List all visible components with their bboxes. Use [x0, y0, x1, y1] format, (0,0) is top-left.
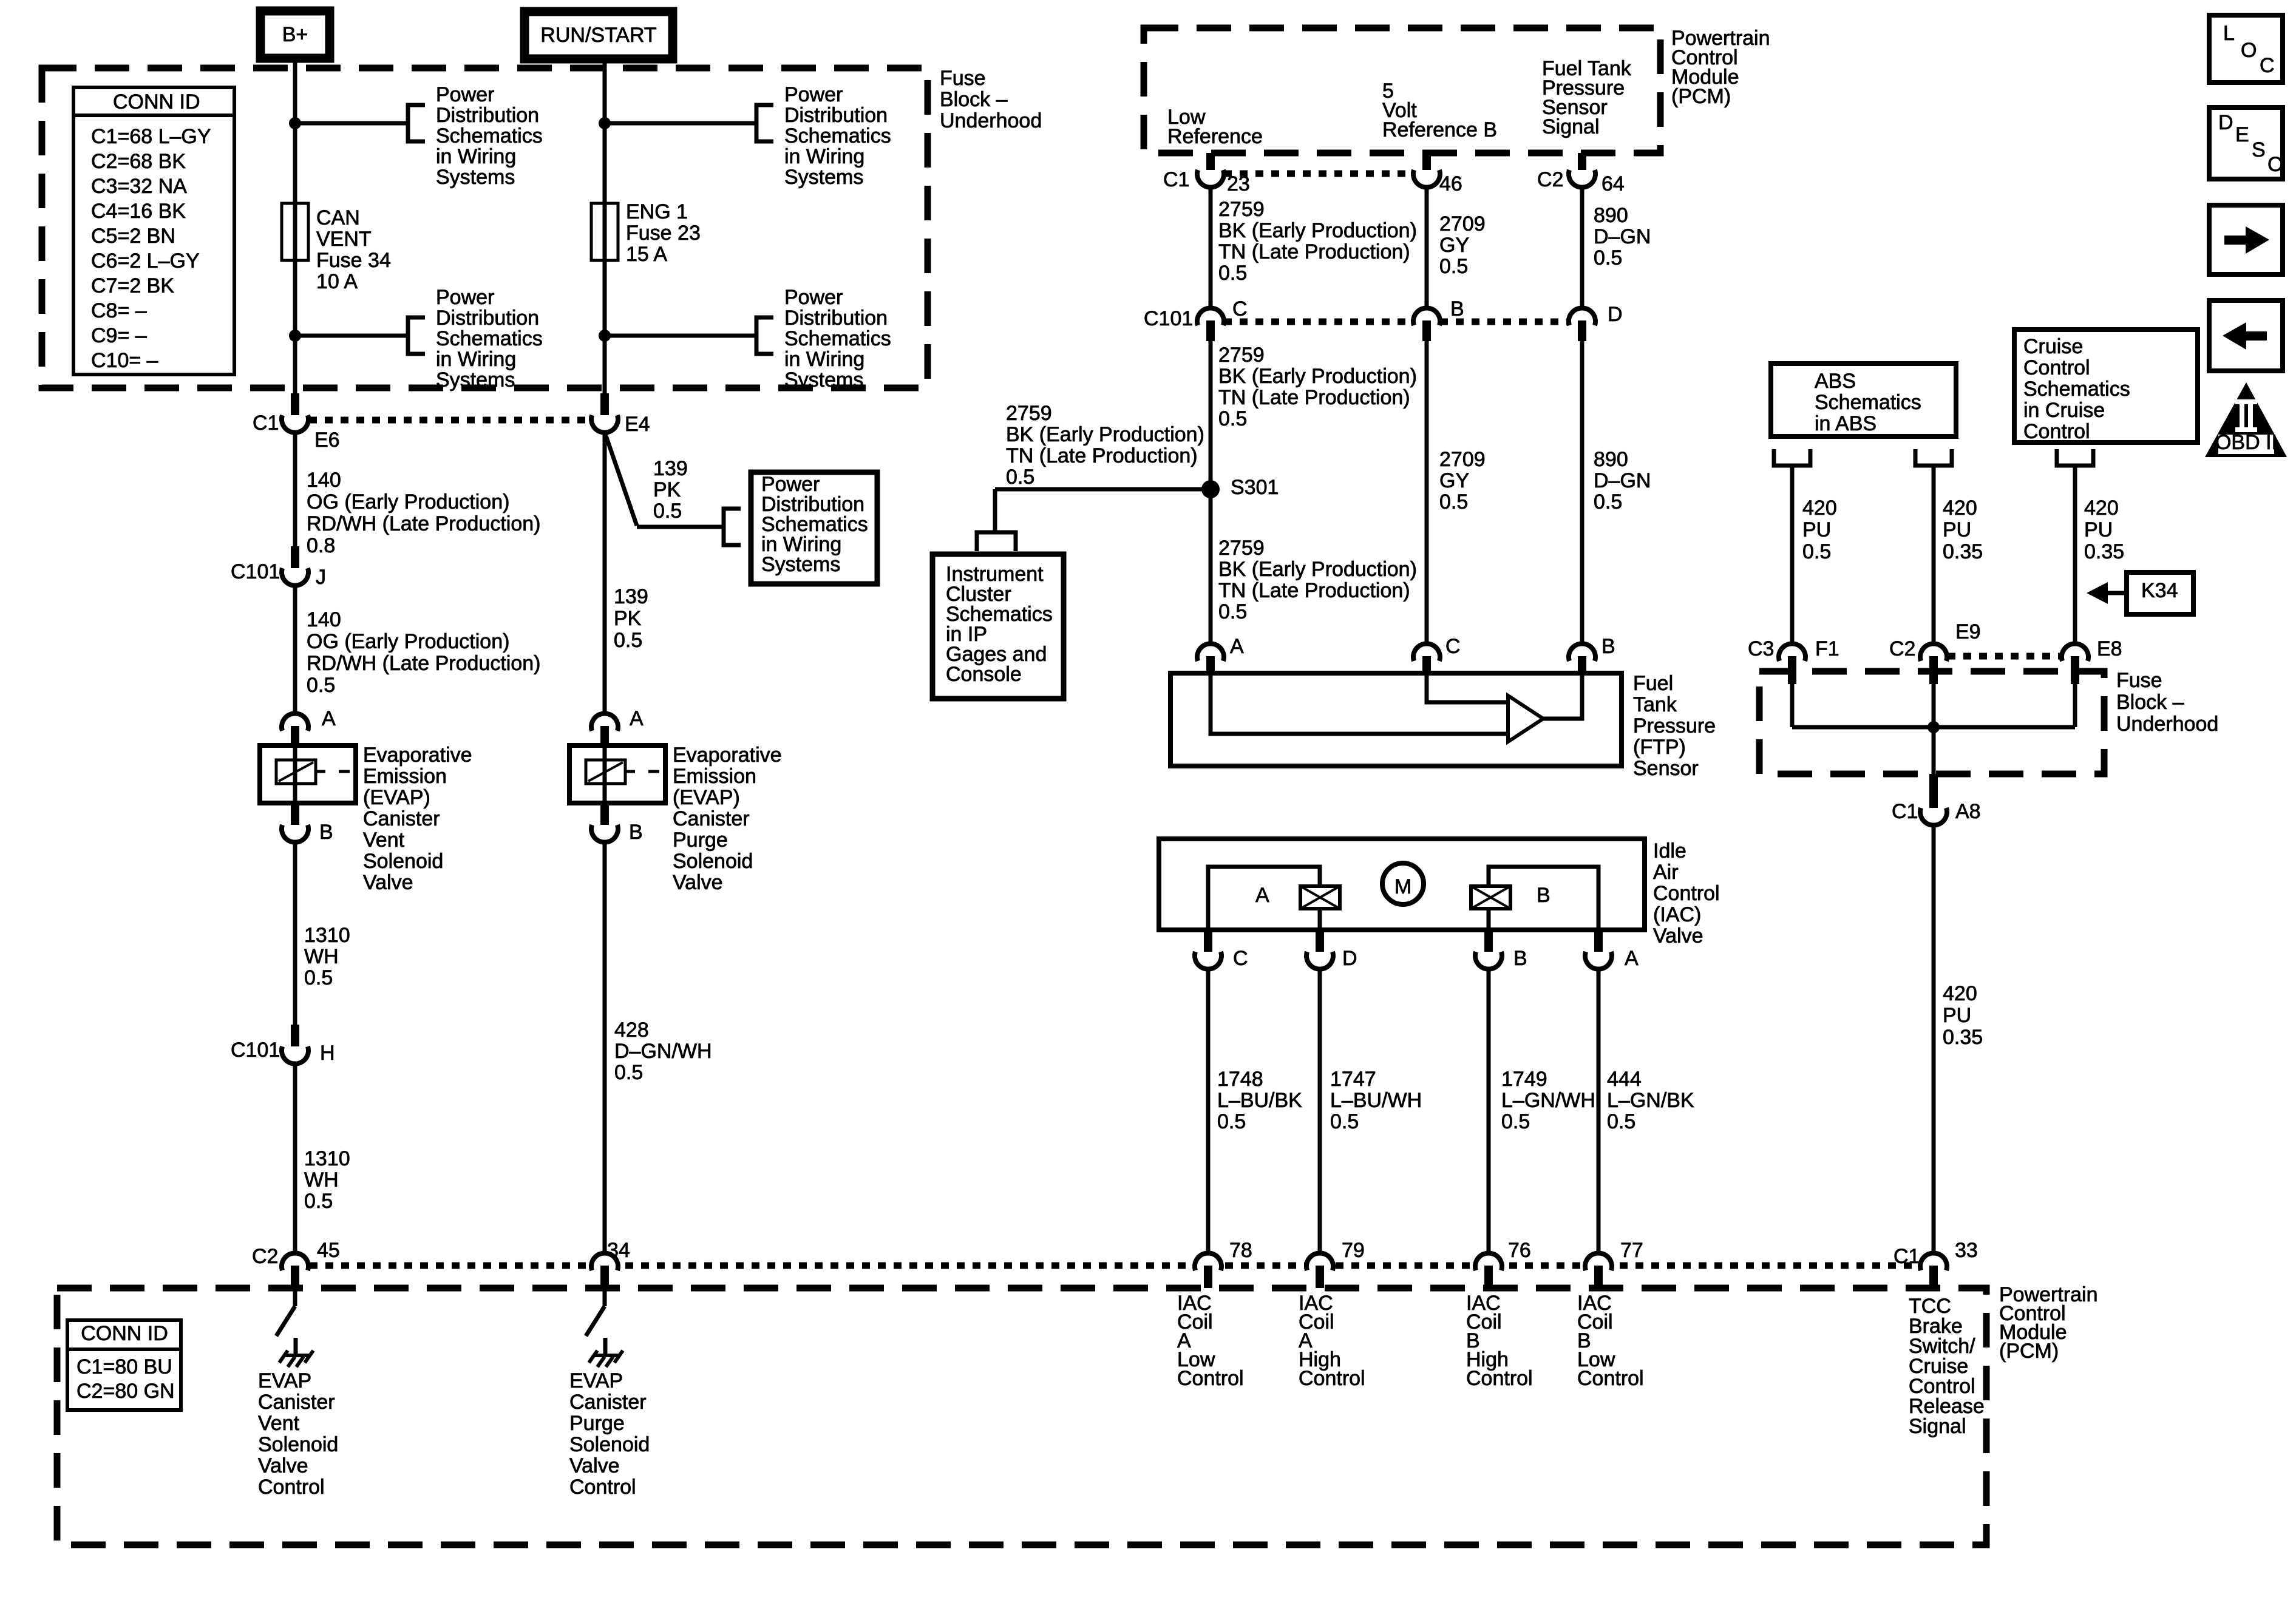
driver switch at 996 — [603, 1288, 607, 1306]
pin E4 stub — [600, 393, 609, 415]
pin 45 stub — [291, 1266, 299, 1288]
svg-text:Evaporative: Evaporative — [363, 744, 472, 767]
connector iac pin D — [1306, 952, 1333, 969]
wire iac B down — [1487, 970, 1491, 1252]
pin E8 stub — [2071, 656, 2079, 684]
connector cap E8 — [2062, 643, 2088, 661]
fuse ENG 1 Fuse 23 — [591, 203, 618, 260]
svg-text:Distribution: Distribution — [436, 307, 539, 330]
svg-text:Power: Power — [784, 286, 843, 309]
svg-text:(PCM): (PCM) — [1671, 85, 1731, 108]
svg-text:BK (Early Production): BK (Early Production) — [1218, 219, 1417, 242]
svg-text:BK (Early Production): BK (Early Production) — [1218, 558, 1417, 581]
svg-text:Valve: Valve — [258, 1454, 308, 1477]
svg-text:2759: 2759 — [1218, 537, 1265, 560]
motor M circle — [1382, 863, 1424, 904]
svg-text:S301: S301 — [1231, 476, 1279, 499]
svg-text:2759: 2759 — [1006, 402, 1052, 425]
svg-text:1748: 1748 — [1217, 1068, 1263, 1091]
wire RUN/START feed — [603, 58, 607, 416]
splice S301 — [1201, 480, 1220, 498]
svg-text:Sensor: Sensor — [1633, 757, 1699, 780]
svg-text:C1: C1 — [253, 412, 279, 435]
svg-text:in Cruise: in Cruise — [2023, 399, 2105, 422]
EVAP vent solenoid valve box — [260, 745, 356, 803]
svg-text:0.5: 0.5 — [1607, 1110, 1635, 1133]
svg-text:(EVAP): (EVAP) — [673, 786, 740, 809]
svg-text:Signal: Signal — [1542, 115, 1600, 138]
connector bottom cap pin 77 — [1585, 1253, 1612, 1270]
terminal B+ — [260, 11, 330, 58]
svg-text:E9: E9 — [1955, 620, 1981, 643]
wire 140 OG segment 1 — [293, 433, 297, 547]
svg-text:C: C — [2267, 153, 2283, 176]
svg-text:C4=16 BK: C4=16 BK — [91, 200, 186, 223]
terminal RUN/START — [525, 12, 673, 59]
wire 139 PK main — [603, 433, 607, 713]
svg-text:Block –: Block – — [940, 88, 1008, 111]
svg-text:139: 139 — [653, 457, 688, 480]
svg-text:RUN/START: RUN/START — [540, 24, 656, 47]
wire 420 to tcc — [1932, 826, 1936, 1252]
svg-text:C2=68 BK: C2=68 BK — [91, 150, 186, 173]
svg-text:140: 140 — [307, 469, 341, 492]
svg-text:A: A — [1230, 635, 1244, 658]
svg-text:C: C — [2260, 54, 2275, 77]
svg-text:Signal: Signal — [1909, 1415, 1966, 1438]
svg-text:0.5: 0.5 — [1218, 262, 1247, 285]
svg-text:0.5: 0.5 — [304, 966, 333, 989]
svg-text:23: 23 — [1227, 172, 1250, 195]
svg-text:O: O — [2241, 39, 2257, 62]
svg-text:RD/WH (Late Production): RD/WH (Late Production) — [307, 652, 540, 675]
svg-text:0.5: 0.5 — [1218, 600, 1247, 623]
wire 2709 c101 to ftp — [1425, 340, 1429, 643]
svg-text:Solenoid: Solenoid — [258, 1433, 338, 1456]
page link bracket 3 — [756, 105, 773, 141]
connector dotted line E9-E8 — [1948, 653, 2062, 660]
wire 1310 WH segment 2 — [293, 1065, 297, 1252]
svg-text:E6: E6 — [314, 429, 340, 452]
svg-text:C2: C2 — [1889, 637, 1915, 660]
svg-text:0.5: 0.5 — [1218, 407, 1247, 430]
svg-text:A: A — [322, 707, 336, 730]
svg-text:(IAC): (IAC) — [1653, 903, 1701, 926]
connector bottom cap pin 76 — [1475, 1253, 1502, 1270]
svg-text:Distribution: Distribution — [436, 104, 539, 127]
svg-text:Systems: Systems — [784, 166, 863, 189]
svg-text:D–GN: D–GN — [1594, 469, 1651, 492]
bus bar fuse block — [1792, 725, 2075, 730]
connector C2 pin 64 — [1569, 170, 1595, 188]
icon DESC box — [2209, 107, 2283, 179]
svg-text:TN (Late Production): TN (Late Production) — [1218, 240, 1410, 263]
K34 arrow — [2107, 591, 2127, 595]
page link bracket instrument cluster — [977, 532, 1016, 551]
wire ftp A internal — [1211, 676, 1508, 734]
svg-text:890: 890 — [1594, 448, 1628, 471]
svg-text:BK (Early Production): BK (Early Production) — [1218, 365, 1417, 388]
pin B stub c101 — [1422, 320, 1431, 341]
svg-text:Reference: Reference — [1167, 125, 1263, 148]
connector bottom cap pin 45 — [282, 1253, 308, 1270]
svg-text:M: M — [1394, 875, 1411, 898]
connector C1 pin E6 — [282, 415, 308, 433]
pin 78 stub — [1204, 1266, 1212, 1288]
svg-text:C: C — [1445, 635, 1461, 658]
svg-text:A: A — [630, 707, 644, 730]
page link bracket 5 — [724, 509, 741, 545]
junction node RUN branch 2 — [599, 330, 611, 342]
connector dotted line C1 top — [1224, 171, 1413, 177]
svg-text:PU: PU — [1943, 1004, 1971, 1027]
connector bottom cap pin 34 — [591, 1253, 618, 1270]
connector C101 dotted line a — [1224, 319, 1413, 325]
pin E6 stub — [291, 393, 299, 415]
svg-text:Schematics: Schematics — [436, 327, 543, 350]
svg-text:C: C — [1232, 297, 1248, 320]
connector C101 J — [282, 568, 308, 586]
fuse block underhood right dashed box — [1759, 671, 2104, 774]
connector C101 cap D — [1569, 308, 1595, 325]
svg-text:in Wiring: in Wiring — [436, 348, 516, 371]
svg-text:2759: 2759 — [1218, 344, 1265, 367]
svg-text:64: 64 — [1601, 172, 1625, 195]
pin F1 stub — [1788, 656, 1796, 684]
pin iac D stub — [1316, 930, 1324, 952]
pin 34 stub — [600, 1266, 609, 1288]
svg-text:34: 34 — [607, 1239, 630, 1262]
wire 890 pcm to c101 — [1580, 187, 1584, 308]
wire 2759 c101 to s301 — [1209, 340, 1213, 643]
svg-text:76: 76 — [1508, 1239, 1531, 1262]
svg-text:C101: C101 — [1144, 307, 1193, 330]
svg-text:in Wiring: in Wiring — [784, 145, 864, 168]
svg-text:TN (Late Production): TN (Late Production) — [1218, 579, 1410, 602]
connector C101 H — [282, 1046, 308, 1064]
svg-text:ABS: ABS — [1815, 370, 1856, 393]
fuse CAN VENT Fuse 34 — [282, 203, 308, 260]
svg-text:Control: Control — [569, 1476, 636, 1499]
svg-text:EVAP: EVAP — [258, 1369, 311, 1392]
connector C1 dotted line — [309, 417, 591, 424]
wire 420 abs right — [1932, 466, 1936, 643]
svg-text:B: B — [1450, 297, 1464, 320]
coil A element — [1300, 886, 1340, 909]
svg-text:L–GN/WH: L–GN/WH — [1501, 1089, 1595, 1112]
page link bracket 4 — [756, 317, 773, 354]
svg-text:C2: C2 — [1537, 168, 1563, 191]
svg-text:2759: 2759 — [1218, 198, 1265, 221]
connector iac pin B — [1475, 952, 1502, 969]
svg-text:1747: 1747 — [1330, 1068, 1376, 1091]
connector C1 A8 — [1920, 808, 1947, 825]
svg-text:C1=68 L–GY: C1=68 L–GY — [91, 125, 211, 148]
PCM bottom dashed box — [57, 1288, 1986, 1545]
svg-text:L–BU/BK: L–BU/BK — [1217, 1089, 1302, 1112]
svg-text:15 A: 15 A — [626, 243, 667, 266]
svg-text:Power: Power — [784, 83, 843, 106]
svg-text:Emission: Emission — [363, 765, 447, 788]
icon LOC box — [2209, 15, 2283, 83]
driver switch at 486 — [293, 1288, 297, 1306]
svg-text:GY: GY — [1439, 234, 1469, 257]
svg-text:CONN ID: CONN ID — [113, 90, 200, 114]
svg-text:Control: Control — [2023, 356, 2090, 379]
connector pin A vent cap — [282, 713, 308, 731]
svg-text:Schematics: Schematics — [2023, 378, 2130, 401]
svg-text:A: A — [1625, 947, 1639, 970]
svg-text:420: 420 — [2084, 497, 2119, 520]
pin B purge stub — [600, 803, 609, 825]
connector pin B vent — [282, 825, 308, 842]
svg-text:GY: GY — [1439, 469, 1469, 492]
svg-text:Systems: Systems — [436, 368, 515, 392]
svg-text:0.5: 0.5 — [1439, 255, 1468, 278]
FTP sensor box — [1170, 673, 1622, 766]
connector pin A purge cap — [591, 713, 618, 731]
pin A8 stub — [1929, 774, 1938, 808]
svg-text:B: B — [1513, 947, 1527, 970]
svg-text:0.5: 0.5 — [1006, 466, 1034, 489]
svg-text:Evaporative: Evaporative — [673, 744, 782, 767]
svg-text:PU: PU — [1802, 518, 1831, 541]
svg-text:B: B — [1537, 884, 1550, 907]
svg-text:890: 890 — [1594, 204, 1628, 227]
svg-text:E8: E8 — [2097, 637, 2122, 660]
pin ftp C stub — [1422, 656, 1431, 676]
connector C1 pin E4 — [591, 415, 618, 433]
CONN ID table — [73, 87, 234, 375]
wire 890 c101 to ftp — [1580, 340, 1584, 643]
svg-text:Control: Control — [1299, 1367, 1365, 1390]
svg-text:Control: Control — [1653, 882, 1720, 905]
svg-text:Pressure: Pressure — [1633, 714, 1716, 737]
connector cap F1 — [1779, 643, 1805, 661]
wire e8 inside — [2073, 684, 2077, 727]
svg-text:ENG 1: ENG 1 — [626, 200, 688, 223]
svg-text:0.5: 0.5 — [614, 629, 642, 652]
svg-text:Schematics: Schematics — [784, 124, 891, 147]
pin C101-H stub — [291, 1025, 299, 1046]
svg-text:OG (Early Production): OG (Early Production) — [307, 630, 509, 653]
svg-text:in ABS: in ABS — [1815, 412, 1877, 435]
svg-text:0.35: 0.35 — [1943, 540, 1983, 563]
svg-text:Systems: Systems — [436, 166, 515, 189]
wire iac coil B up — [1487, 909, 1491, 930]
pin C stub c101 — [1206, 320, 1215, 341]
svg-text:0.5: 0.5 — [1501, 1110, 1530, 1133]
svg-text:RD/WH (Late Production): RD/WH (Late Production) — [307, 512, 540, 535]
wire E4 branch horizontal — [637, 525, 724, 529]
svg-text:428: 428 — [614, 1019, 649, 1042]
connector C1 pin 23 — [1197, 170, 1224, 188]
svg-text:Solenoid: Solenoid — [363, 850, 443, 873]
connector C101 cap B — [1413, 308, 1440, 325]
svg-text:0.5: 0.5 — [614, 1061, 643, 1084]
svg-text:Systems: Systems — [761, 553, 840, 576]
svg-text:Power: Power — [436, 83, 494, 106]
wire iac coil A down — [1318, 909, 1322, 930]
pin 64 stub — [1578, 153, 1586, 172]
svg-text:Control: Control — [1577, 1367, 1644, 1390]
wire E4 branch diagonal — [605, 432, 637, 526]
svg-text:OBD II: OBD II — [2215, 431, 2277, 454]
connector bottom cap pin 33 — [1920, 1253, 1947, 1270]
svg-text:140: 140 — [307, 608, 341, 631]
wire 420 cruise — [2073, 466, 2077, 643]
svg-text:C101: C101 — [231, 560, 280, 583]
pin E9 stub — [1929, 656, 1938, 684]
wire branch to power distribution 2 — [295, 334, 408, 338]
svg-text:Distribution: Distribution — [784, 104, 888, 127]
svg-text:D: D — [1608, 303, 1623, 326]
svg-text:Underhood: Underhood — [940, 109, 1042, 132]
svg-text:Purge: Purge — [569, 1412, 625, 1435]
wire 420 abs left — [1790, 466, 1795, 643]
svg-text:0.5: 0.5 — [1330, 1110, 1359, 1133]
solenoid element vent — [276, 760, 316, 784]
pin 33 stub — [1929, 1266, 1938, 1288]
pin 76 stub — [1484, 1266, 1493, 1288]
connector cap E9 — [1920, 643, 1947, 661]
svg-text:K34: K34 — [2141, 579, 2178, 602]
wire branch to power distribution 1 — [295, 121, 408, 126]
svg-text:Solenoid: Solenoid — [673, 850, 753, 873]
svg-text:Purge: Purge — [673, 829, 728, 852]
junction node RUN branch 1 — [599, 117, 611, 129]
svg-text:C1=80 BU: C1=80 BU — [76, 1355, 172, 1378]
svg-text:Control: Control — [1177, 1367, 1244, 1390]
svg-text:A: A — [1255, 884, 1269, 907]
connector cap ftp B — [1569, 643, 1595, 661]
svg-text:C8= –: C8= – — [91, 299, 147, 322]
svg-text:C6=2 L–GY: C6=2 L–GY — [91, 249, 200, 273]
wire s301 branch vertical — [993, 489, 997, 532]
svg-text:EVAP: EVAP — [569, 1369, 623, 1392]
wire 140 OG segment 2 — [293, 586, 297, 713]
svg-text:Power: Power — [436, 286, 494, 309]
page link bracket 2 — [408, 317, 425, 354]
svg-text:Console: Console — [946, 663, 1022, 686]
svg-text:Canister: Canister — [569, 1391, 647, 1414]
svg-text:VENT: VENT — [316, 228, 372, 251]
svg-text:CAN: CAN — [316, 206, 360, 229]
connector cap ftp C — [1413, 643, 1440, 661]
box instrument cluster schematics — [932, 554, 1064, 699]
pin D stub c101 — [1578, 320, 1586, 341]
svg-text:Schematics: Schematics — [784, 327, 891, 350]
svg-text:WH: WH — [304, 1168, 339, 1192]
svg-text:Fuse 23: Fuse 23 — [626, 222, 701, 245]
pin 77 stub — [1594, 1266, 1603, 1288]
svg-text:33: 33 — [1955, 1239, 1978, 1262]
svg-text:Block –: Block – — [2116, 691, 2184, 714]
svg-text:C5=2 BN: C5=2 BN — [91, 225, 175, 248]
icon OBD II triangle — [2205, 382, 2287, 457]
svg-text:Fuse 34: Fuse 34 — [316, 249, 391, 272]
svg-text:in Wiring: in Wiring — [436, 145, 516, 168]
svg-text:C7=2 BK: C7=2 BK — [91, 274, 174, 297]
svg-text:C9= –: C9= – — [91, 324, 147, 347]
junction node bus — [1927, 721, 1940, 733]
svg-text:Systems: Systems — [784, 368, 863, 392]
svg-text:Fuse: Fuse — [2116, 669, 2162, 692]
svg-text:H: H — [320, 1042, 335, 1065]
svg-text:(FTP): (FTP) — [1633, 736, 1686, 759]
connector iac pin C — [1195, 952, 1221, 969]
wire 2709 pcm to c101 — [1425, 187, 1429, 308]
svg-text:C2: C2 — [252, 1245, 278, 1268]
svg-text:Cruise: Cruise — [2023, 335, 2083, 358]
fuse block underhood dashed box — [42, 68, 928, 388]
svg-text:PK: PK — [614, 607, 642, 630]
svg-text:79: 79 — [1342, 1239, 1365, 1262]
wire f1 inside — [1790, 684, 1795, 727]
pin 23 stub — [1206, 153, 1215, 172]
connector bottom cap pin 78 — [1195, 1253, 1221, 1270]
svg-text:Valve: Valve — [1653, 924, 1703, 947]
svg-text:Idle: Idle — [1653, 839, 1686, 863]
svg-text:L–BU/WH: L–BU/WH — [1330, 1089, 1422, 1112]
svg-text:2709: 2709 — [1439, 448, 1486, 471]
svg-text:L–GN/BK: L–GN/BK — [1607, 1089, 1694, 1112]
svg-text:C101: C101 — [231, 1039, 280, 1062]
svg-text:0.5: 0.5 — [1217, 1110, 1246, 1133]
svg-text:0.5: 0.5 — [1802, 540, 1831, 563]
svg-text:F1: F1 — [1815, 637, 1839, 660]
icon arrow left box — [2209, 300, 2283, 371]
svg-text:139: 139 — [614, 585, 648, 608]
wire 2759 pcm to c101 — [1209, 187, 1213, 308]
wire branch to power distribution 3 — [605, 121, 756, 126]
svg-text:2709: 2709 — [1439, 212, 1486, 236]
IAC valve box — [1159, 839, 1645, 930]
svg-text:Canister: Canister — [363, 807, 440, 830]
svg-text:Emission: Emission — [673, 765, 756, 788]
svg-text:Control: Control — [258, 1476, 325, 1499]
svg-text:1310: 1310 — [304, 924, 350, 947]
svg-text:B: B — [629, 821, 643, 844]
svg-text:Valve: Valve — [363, 871, 413, 894]
svg-text:46: 46 — [1439, 172, 1462, 195]
icon arrow right box — [2209, 205, 2283, 274]
pin A purge stub — [600, 726, 609, 745]
pin ftp A stub — [1206, 656, 1215, 676]
svg-text:B: B — [1601, 635, 1615, 658]
svg-text:Underhood: Underhood — [2116, 713, 2218, 736]
svg-text:TN (Late Production): TN (Late Production) — [1006, 444, 1198, 467]
connector pin 46 — [1413, 170, 1440, 188]
svg-text:0.5: 0.5 — [1594, 490, 1622, 514]
svg-text:B: B — [319, 821, 333, 844]
svg-text:Fuse: Fuse — [940, 67, 986, 90]
page link bracket abs left — [1774, 449, 1810, 466]
svg-text:PK: PK — [653, 478, 681, 501]
wire s301 branch horizontal — [995, 487, 1211, 492]
connector cap ftp A — [1197, 643, 1224, 661]
svg-text:(EVAP): (EVAP) — [363, 786, 430, 809]
svg-text:OG (Early Production): OG (Early Production) — [307, 490, 509, 514]
svg-text:Distribution: Distribution — [784, 307, 888, 330]
connector pin B purge — [591, 825, 618, 842]
solenoid element purge — [586, 760, 625, 784]
PCM top dashed box — [1144, 28, 1660, 153]
EVAP purge solenoid valve box — [569, 745, 665, 803]
svg-text:0.5: 0.5 — [653, 500, 682, 523]
page link bracket 1 — [408, 105, 425, 141]
svg-text:PU: PU — [2084, 518, 2113, 541]
